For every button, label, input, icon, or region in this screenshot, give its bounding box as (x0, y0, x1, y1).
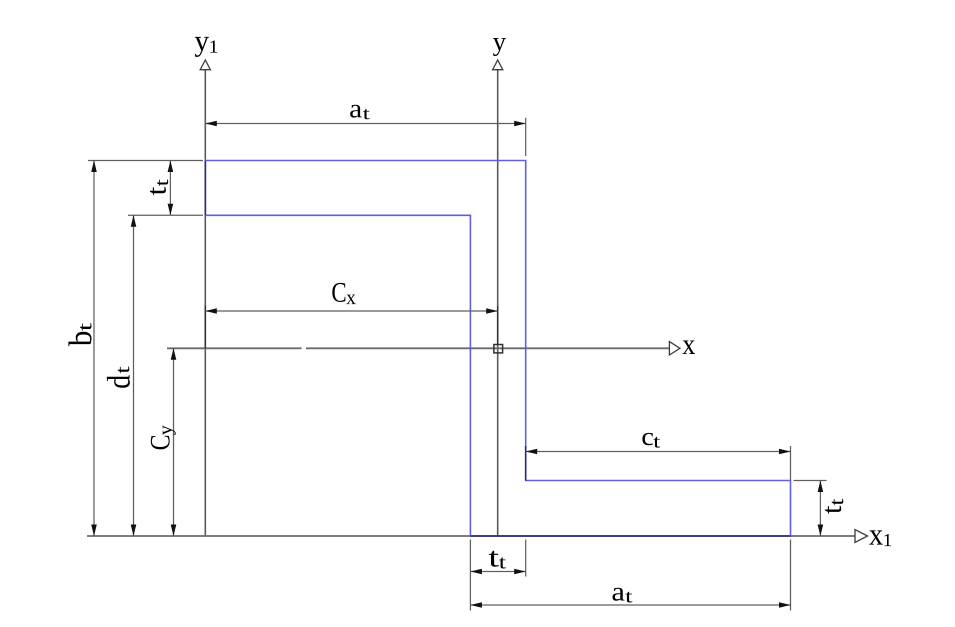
label x axis (683, 341, 696, 355)
label C_y rotated: subscript y (163, 425, 176, 435)
y1 axis line (204, 70, 206, 536)
overlap: left edge of top flange over y1 axis (204, 161, 206, 216)
label C_x: C (332, 283, 345, 302)
label y1 axis: subscript 1 (210, 41, 217, 53)
dimension t_t top-left: line (169, 161, 171, 216)
dimension a_t bottom: line (470, 604, 790, 606)
extension line top flange lower (y=215.3) (128, 214, 203, 216)
x1 axis line (87, 535, 855, 537)
x axis line (with centerline break) (167, 347, 302, 349)
x1 axis arrowhead (855, 530, 868, 543)
label C_x: subscript x (346, 295, 355, 305)
label t_t top-left rotated: t (150, 187, 166, 195)
label d_t rotated: d (107, 375, 130, 388)
label t_t top-left rotated: subscript t (157, 179, 168, 186)
y axis line (497, 70, 499, 536)
extension line C_x left on y1 axis (204, 306, 206, 349)
label a_t bottom: subscript t (625, 592, 632, 603)
y axis arrowhead (493, 60, 503, 70)
label b_t rotated: subscript t (80, 323, 91, 331)
extension line t_t right top (y=480.5) (794, 480, 827, 482)
label a_t top: subscript t (363, 109, 370, 119)
dimension C_x: line (205, 310, 497, 312)
dimension C_y: line (173, 348, 175, 536)
y1 axis arrowhead (200, 60, 210, 70)
dimension t_t bottom: line (470, 571, 525, 573)
extension line bottom flange right (x=790.5) (790, 540, 792, 611)
label x1 axis: subscript 1 (884, 534, 891, 546)
extension line c_t right (x=790.5 above flange) (790, 446, 792, 481)
dimension a_t top: line (205, 123, 525, 125)
extension line a_t top right (x=525.7) (525, 118, 527, 156)
extension line C_x right on y axis (497, 306, 499, 344)
blue Z-section outline (205, 161, 790, 537)
dimension b_t: line (93, 161, 95, 537)
x axis arrowhead (669, 342, 680, 355)
label d_t rotated: subscript t (118, 367, 130, 374)
centroid square marker (494, 345, 503, 353)
label t_t bottom: subscript t (499, 558, 506, 569)
label C_y rotated: C (151, 436, 170, 450)
dimension c_t: line (526, 451, 791, 453)
dimension t_t right: line (819, 481, 821, 537)
label t_t right rotated: t (825, 506, 841, 514)
label b_t rotated: b (68, 332, 91, 346)
label t_t right rotated: subscript t (832, 499, 844, 506)
label a_t top: a (350, 105, 362, 118)
label t_t bottom: t (489, 551, 499, 567)
label c_t: c (642, 433, 653, 445)
dimension d_t: line (133, 215, 135, 536)
label y1 axis: y (195, 37, 209, 57)
label x1 axis: x (869, 530, 883, 544)
extension line top flange upper (y=160.5) (88, 160, 203, 162)
overlap: bottom edge over x1 axis (470, 535, 790, 537)
extension line bottom web left (x=470.4) (469, 540, 471, 611)
label y axis (493, 38, 506, 56)
extension line bottom web right (x=525.7) (525, 540, 527, 577)
label c_t: subscript t (653, 437, 660, 448)
label a_t bottom: a (613, 588, 625, 601)
overlap: web right edge with c_t extension (525, 446, 527, 481)
